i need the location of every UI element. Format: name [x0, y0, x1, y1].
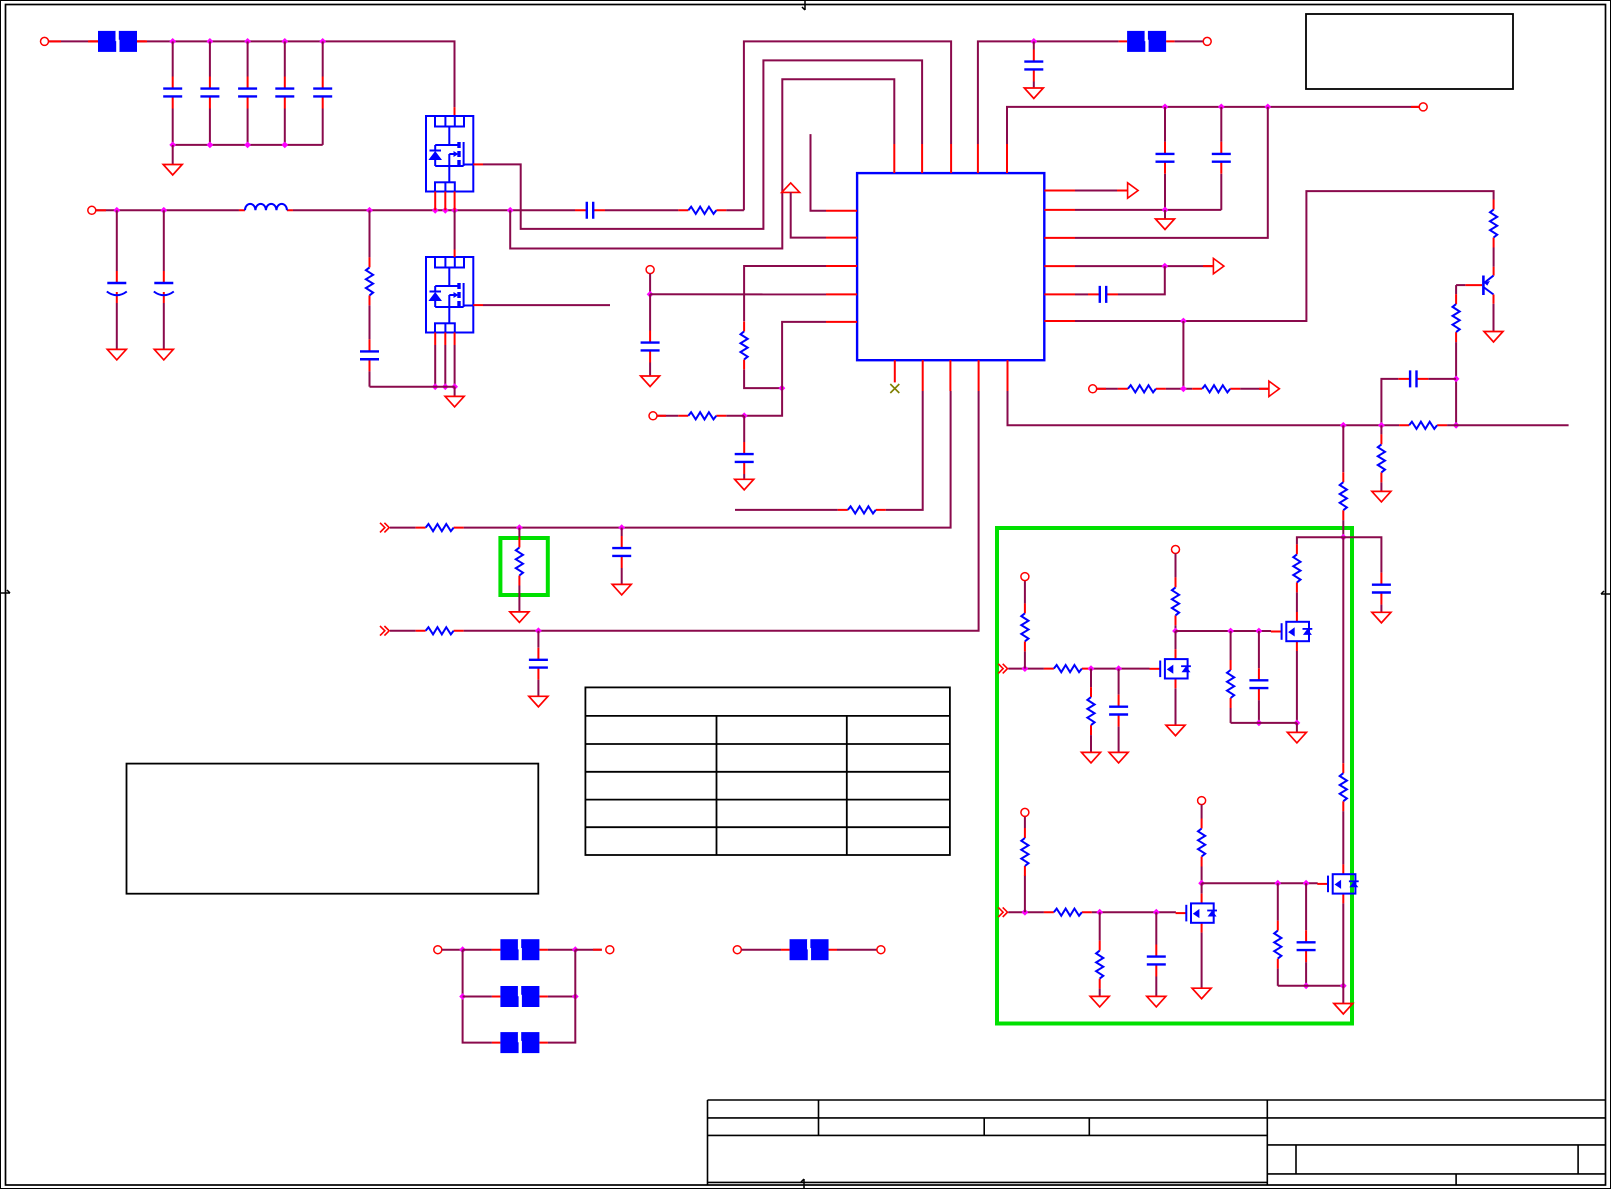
- pin: [826, 265, 857, 267]
- wire: [444, 345, 446, 387]
- junction: [160, 207, 167, 214]
- wire: [1258, 700, 1260, 723]
- ground: [163, 165, 182, 176]
- wire: [575, 949, 602, 951]
- capacitor C17: [1372, 573, 1391, 605]
- junction: [207, 38, 214, 45]
- pin: [893, 144, 895, 173]
- fuse F4: [492, 986, 548, 1007]
- wire: [369, 210, 371, 257]
- ground: [1192, 988, 1211, 999]
- table: [585, 687, 950, 855]
- wire: [1033, 41, 1035, 49]
- capacitor C8: [575, 202, 605, 219]
- wire: [1097, 388, 1118, 390]
- wire: [1175, 40, 1204, 42]
- pin: [1044, 190, 1075, 192]
- wire: [1024, 651, 1026, 668]
- capacitor C9: [360, 339, 379, 371]
- junction: [1256, 720, 1263, 727]
- junction: [459, 993, 466, 1000]
- junction: [1378, 422, 1385, 429]
- power arrow A3: [1269, 381, 1280, 396]
- junction: [432, 383, 439, 390]
- wire: [1380, 425, 1382, 434]
- resistor R20: [1087, 687, 1094, 735]
- pin: [1097, 388, 1106, 390]
- wire: [837, 949, 877, 951]
- wire: [322, 109, 324, 145]
- junction: [432, 207, 439, 214]
- capacitor C11: [735, 442, 754, 474]
- wire: [1182, 321, 1184, 389]
- wire rail: [1075, 209, 1221, 211]
- wire: [741, 949, 781, 951]
- junction: [1294, 720, 1301, 727]
- wire row: [1202, 882, 1318, 884]
- pin emitter: [1493, 295, 1495, 304]
- wire: [1455, 342, 1457, 425]
- wire: [1075, 107, 1268, 238]
- wire: [518, 528, 520, 538]
- wire: [1220, 107, 1222, 142]
- junction: [1340, 422, 1347, 429]
- junction: [1088, 665, 1095, 672]
- capacitor C14: [1212, 142, 1231, 174]
- ground: [612, 584, 631, 595]
- pin: [1044, 209, 1075, 211]
- wire: [172, 145, 174, 165]
- wire: [1175, 554, 1177, 578]
- wire: [743, 474, 745, 479]
- capacitor C13: [1156, 142, 1175, 174]
- wire: [726, 209, 744, 211]
- resistor R8: [678, 412, 726, 419]
- wire: [1240, 388, 1268, 390]
- pin: [137, 40, 147, 42]
- connector J10: [1021, 808, 1029, 816]
- wire: [1493, 304, 1495, 331]
- input port P1: [998, 664, 1007, 674]
- wire: [116, 303, 118, 349]
- notes box left: [127, 764, 539, 894]
- junction: [1227, 628, 1234, 635]
- junction: [281, 142, 288, 149]
- fuse F2: [1119, 31, 1175, 52]
- wire: [650, 293, 826, 295]
- pin: [1044, 237, 1075, 239]
- op-amp U1 controller IC: [857, 173, 1044, 360]
- junction: [442, 383, 449, 390]
- wire: [247, 41, 249, 76]
- resistor R17: [1293, 544, 1300, 592]
- wire: [1342, 986, 1344, 1003]
- wire: [744, 370, 782, 389]
- fuse F5: [492, 1032, 548, 1053]
- junction: [618, 524, 625, 531]
- capacitor C22: [612, 536, 631, 568]
- wire: [49, 40, 99, 42]
- junction: [1453, 422, 1460, 429]
- ground: [1484, 332, 1503, 343]
- capacitor C3: [238, 77, 257, 109]
- connector J14: [733, 946, 741, 954]
- pin: [88, 40, 98, 42]
- wire: [1118, 727, 1120, 752]
- junction: [572, 946, 579, 953]
- connector J4: [649, 412, 657, 420]
- junction: [207, 142, 214, 149]
- wire: [1447, 424, 1569, 426]
- wire rail: [1278, 985, 1344, 987]
- transistor Q1 dual-FET high-side: [426, 116, 473, 192]
- border tick left: [0, 590, 10, 593]
- wire: [1455, 285, 1457, 294]
- wire: [548, 949, 575, 951]
- capacitor C15: [1088, 286, 1118, 303]
- capacitor C20: [1147, 945, 1166, 977]
- ground: [107, 349, 126, 360]
- wire: [1342, 520, 1344, 537]
- connector J15: [877, 946, 885, 954]
- ground: [1147, 996, 1166, 1007]
- junction: [1153, 909, 1160, 916]
- no-connect X1: [890, 384, 899, 393]
- junction: [1274, 880, 1281, 887]
- capacitor C10: [641, 331, 660, 363]
- connector J5: [1203, 37, 1211, 45]
- wire: [1007, 107, 1419, 144]
- wire: [1201, 867, 1203, 884]
- wire: [1493, 248, 1495, 267]
- wire: [1201, 933, 1203, 988]
- wire: [1342, 537, 1344, 763]
- transistor Q2 dual-FET low-side: [426, 257, 473, 333]
- resistor R27: [1274, 921, 1281, 969]
- ground: [1287, 732, 1306, 743]
- junction: [451, 383, 458, 390]
- junction: [572, 993, 579, 1000]
- transistor Q3: [1483, 276, 1493, 296]
- wire: [649, 294, 651, 330]
- wire: [116, 210, 118, 271]
- wire: [172, 109, 174, 145]
- resistor R6: [366, 257, 373, 305]
- wire: [744, 41, 951, 210]
- ground: [1109, 752, 1128, 763]
- wire: [1175, 631, 1177, 649]
- wire: [1155, 912, 1157, 944]
- pin: [49, 40, 62, 42]
- wire: [369, 371, 371, 386]
- junction: [1340, 982, 1347, 989]
- wire: [284, 41, 286, 76]
- wire: [1008, 911, 1044, 913]
- ground: [1082, 752, 1101, 763]
- pin: [454, 192, 456, 211]
- junction: [741, 412, 748, 419]
- pin: [1044, 265, 1075, 267]
- wire: [454, 387, 456, 396]
- junction: [1030, 38, 1037, 45]
- wire: [537, 631, 539, 648]
- wire: [1230, 708, 1232, 723]
- capacitor C16: [1398, 370, 1428, 387]
- junction: [1180, 318, 1187, 325]
- resistor R28: [416, 524, 464, 531]
- transistor Q4: [1150, 649, 1191, 688]
- pin: [1044, 320, 1075, 322]
- ground: [1166, 725, 1185, 736]
- wire: [369, 305, 371, 339]
- pin: [444, 192, 446, 211]
- power arrow A2: [1213, 258, 1224, 273]
- junction: [1096, 909, 1103, 916]
- junction: [169, 38, 176, 45]
- capacitor C1: [163, 77, 182, 109]
- pin: [1117, 190, 1127, 192]
- wire: [483, 304, 610, 306]
- wire: [886, 391, 923, 510]
- wire: [1024, 816, 1026, 828]
- connector J13: [606, 946, 614, 954]
- resistor R5: [678, 207, 726, 214]
- wire: [454, 345, 456, 387]
- pin: [921, 144, 923, 173]
- wire: [726, 415, 744, 417]
- pin: [434, 333, 436, 346]
- transistor Q7: [1317, 864, 1358, 903]
- pin: [1007, 360, 1009, 391]
- pin: [978, 360, 980, 391]
- pin: [1044, 293, 1075, 295]
- junction: [1340, 534, 1347, 541]
- notes box top-right: [1306, 14, 1513, 89]
- wire: [621, 528, 623, 536]
- wire: [1075, 190, 1127, 192]
- wire rail: [370, 386, 455, 388]
- ground: [529, 696, 548, 707]
- wire: [1428, 378, 1456, 380]
- ground: [641, 376, 660, 387]
- ground: [154, 349, 173, 360]
- pin: [950, 144, 952, 173]
- junction: [507, 207, 514, 214]
- wire: [744, 388, 782, 416]
- junction: [1198, 880, 1205, 887]
- wire: [1277, 883, 1279, 920]
- pin: [826, 237, 857, 239]
- pin: [473, 304, 483, 306]
- wire: [1075, 293, 1088, 295]
- wire: [735, 509, 838, 511]
- pin: [444, 333, 446, 346]
- connector J1: [41, 37, 49, 45]
- wire: [1220, 174, 1222, 210]
- ground: [510, 612, 529, 623]
- wire: [1380, 605, 1382, 612]
- resistor R16: [1378, 434, 1385, 482]
- connector J7: [1089, 385, 1097, 393]
- wire: [96, 209, 239, 211]
- wire: [978, 41, 1119, 144]
- wire: [1155, 977, 1157, 996]
- wire: [1099, 912, 1101, 940]
- pin: [434, 192, 436, 211]
- ground: [1334, 1004, 1353, 1015]
- resistor R21: [1172, 577, 1179, 625]
- wire: [172, 41, 174, 76]
- junction: [1022, 665, 1029, 672]
- wire: [1277, 969, 1279, 986]
- wire rail: [1231, 722, 1297, 724]
- junction: [1218, 104, 1225, 111]
- wire: [743, 416, 745, 442]
- wire: [1024, 876, 1026, 913]
- wire: [442, 949, 463, 951]
- capacitor C21: [1297, 930, 1316, 962]
- input port P2: [998, 907, 1007, 917]
- wire: [464, 391, 951, 528]
- junction: [1022, 909, 1029, 916]
- wire: [649, 274, 651, 295]
- pin base: [1465, 284, 1482, 286]
- pin: [657, 415, 666, 417]
- border tick right: [1601, 591, 1611, 594]
- junction: [1161, 263, 1168, 270]
- resistor R31: [838, 506, 886, 513]
- wire: [510, 79, 894, 248]
- junction: [1303, 982, 1310, 989]
- junction: [366, 207, 373, 214]
- title block: [708, 1100, 1606, 1185]
- resistor R26: [1198, 819, 1205, 867]
- power arrow VCC: [782, 183, 800, 193]
- junction: [244, 38, 251, 45]
- wire: [518, 586, 520, 612]
- resistor R19: [1021, 603, 1028, 651]
- connector J12: [434, 946, 442, 954]
- wire: [537, 680, 539, 696]
- input port P3: [380, 523, 389, 533]
- junction: [1264, 104, 1271, 111]
- capacitor C6: [107, 271, 127, 303]
- resistor R7: [741, 321, 748, 369]
- pin: [826, 210, 857, 212]
- junction: [451, 207, 458, 214]
- wire: [163, 210, 165, 271]
- ground: [1156, 219, 1175, 230]
- junction: [1162, 104, 1169, 111]
- junction: [319, 38, 326, 45]
- junction: [535, 627, 542, 634]
- pin: [454, 333, 456, 346]
- ground: [1090, 996, 1109, 1007]
- junction: [281, 38, 288, 45]
- junction: [442, 207, 449, 214]
- pin: [922, 360, 924, 391]
- pin: [454, 250, 456, 258]
- wire: [1296, 651, 1298, 723]
- wire: [284, 109, 286, 145]
- power arrow A1: [1128, 183, 1139, 198]
- junction: [1172, 628, 1179, 635]
- wire: [1092, 911, 1176, 913]
- pin: [1493, 267, 1495, 276]
- resistor R18: [1044, 665, 1092, 672]
- wire: [209, 41, 211, 76]
- wire: [649, 363, 651, 376]
- wire: [548, 950, 575, 1043]
- wire: [1090, 735, 1092, 752]
- wire: [1342, 811, 1344, 864]
- capacitor C5: [313, 77, 332, 109]
- junction: [1115, 665, 1122, 672]
- wire: [1456, 284, 1465, 286]
- input port P4: [380, 626, 389, 636]
- resistor R23: [1044, 909, 1092, 916]
- connector J2: [88, 206, 96, 214]
- junction: [1256, 628, 1263, 635]
- resistor R14: [1340, 472, 1347, 520]
- resistor R15: [1340, 763, 1347, 811]
- wire: [1090, 669, 1092, 688]
- junction: [1453, 376, 1460, 383]
- connector J11: [1198, 797, 1206, 805]
- wire: [247, 109, 249, 145]
- wire: [1099, 989, 1101, 996]
- wire: [791, 192, 826, 237]
- resistor R29: [516, 538, 523, 586]
- pin: [826, 321, 857, 323]
- wire: [464, 391, 979, 631]
- resistor R10: [1453, 294, 1460, 342]
- wire: [1342, 425, 1344, 472]
- wire bus: [1008, 391, 1400, 425]
- wire: [1092, 668, 1150, 670]
- ground: [1372, 612, 1391, 623]
- wire: [548, 996, 575, 998]
- pin: [826, 293, 857, 295]
- transistor Q6: [1176, 894, 1217, 933]
- pin: [1259, 388, 1268, 390]
- wire: [209, 109, 211, 145]
- resistor R9: [1490, 200, 1497, 248]
- pin: [454, 107, 456, 116]
- pin: [949, 360, 951, 391]
- wire: [1305, 883, 1307, 930]
- junction: [779, 385, 786, 392]
- transistor Q5: [1271, 612, 1312, 651]
- wire: [657, 415, 678, 417]
- junction: [169, 142, 176, 149]
- wire: [1305, 962, 1307, 986]
- junction: [516, 524, 523, 531]
- wire: [1008, 668, 1044, 670]
- wire: [1118, 266, 1165, 294]
- junction: [113, 207, 120, 214]
- pin: [977, 144, 979, 173]
- resistor R13: [1399, 422, 1447, 429]
- connector J8: [1021, 573, 1029, 581]
- wire dangling: [811, 134, 827, 211]
- junction: [647, 291, 654, 298]
- highlight box green large: [997, 528, 1352, 1024]
- fuse F1: [90, 31, 146, 52]
- wire: [744, 266, 826, 321]
- resistor R25: [1096, 941, 1103, 989]
- wire: [1201, 805, 1203, 819]
